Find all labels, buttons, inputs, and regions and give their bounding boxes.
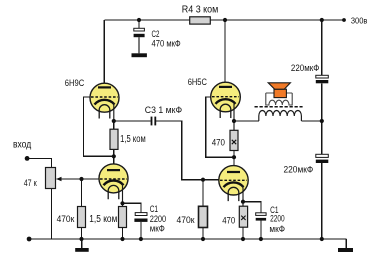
svg-text:1,5 ком: 1,5 ком [89, 214, 117, 225]
svg-text:470к: 470к [57, 214, 75, 224]
wire transformer to right column [301, 120, 321, 122]
svg-text:6Н9С: 6Н9С [65, 78, 85, 88]
svg-text:R4 3 ком: R4 3 ком [182, 4, 219, 15]
resistor 470 cathode right [239, 206, 247, 227]
node rail C1 right [259, 237, 263, 241]
tube V2b 6N5S lower half [219, 166, 248, 207]
node wiper grid [79, 177, 83, 181]
svg-text:мкФ: мкФ [150, 224, 165, 234]
capacitor 220uF top right [316, 75, 329, 83]
tube V1a 6N9S upper half [90, 83, 119, 121]
svg-text:мкФ: мкФ [269, 224, 285, 234]
svg-text:470 мкФ: 470 мкФ [152, 38, 181, 48]
capacitor C1 right [256, 213, 266, 221]
capacitor C3 [151, 117, 157, 126]
wire top B+ rail [104, 19, 344, 21]
resistor 470k left [78, 207, 86, 228]
svg-text:300в: 300в [351, 16, 368, 25]
svg-text:470: 470 [212, 137, 225, 148]
node input terminal [25, 156, 30, 161]
capacitor 220uF bottom right [316, 154, 329, 163]
node rail 470k right [201, 237, 205, 241]
transformer primary winding [259, 110, 302, 121]
node V2b grid [201, 178, 205, 182]
svg-text:220мкФ: 220мкФ [291, 63, 320, 73]
resistor 470 SRPP right [230, 130, 238, 150]
wire tap bus to transformer [234, 120, 259, 122]
svg-text:C1: C1 [150, 204, 158, 214]
wire C2 drop [138, 20, 140, 29]
wire tube V1a plate lead [103, 20, 105, 85]
wire V2b plate lead [233, 157, 235, 166]
svg-text:2200: 2200 [270, 214, 285, 224]
node junction dots [25, 18, 346, 242]
wire right column bottom [321, 163, 323, 239]
node rail C1 left [139, 237, 143, 241]
ground below C2 [132, 53, 147, 57]
wire right column top [321, 20, 323, 76]
node SRPP mid right [232, 155, 236, 159]
node right column top [320, 18, 324, 22]
node rail 470 right [241, 237, 245, 241]
node transformer right [320, 119, 324, 123]
wire node to R 470k left [81, 179, 83, 207]
node V1b cathode [120, 201, 124, 205]
svg-text:1,5 ком: 1,5 ком [120, 134, 146, 145]
transformer secondary winding [266, 93, 292, 105]
svg-text:220мкФ: 220мкФ [284, 164, 314, 174]
svg-text:6Н5С: 6Н5С [188, 77, 208, 87]
wire wiper to grid node [57, 178, 82, 180]
wire R1.5k upper leads [113, 121, 115, 164]
svg-text:C3 1 мкФ: C3 1 мкФ [145, 105, 182, 115]
ground left under rail [75, 248, 89, 252]
wire R1.5k lower bottom [122, 228, 124, 240]
svg-text:вход: вход [13, 139, 31, 151]
resistor 470k right [199, 206, 208, 227]
wire R470 lower bottom [242, 227, 244, 239]
wire right column middle [321, 83, 323, 154]
node 300V terminal [342, 18, 346, 22]
resistor R4 3k [190, 17, 211, 24]
transformer core [255, 106, 303, 108]
wire V1b cathode node branch [123, 203, 141, 212]
svg-text:470: 470 [222, 216, 235, 227]
wire right-end ground stub [345, 239, 347, 248]
wire input to potentiometer [27, 158, 51, 167]
wire node A bus to C3 [114, 120, 151, 122]
wire R 470k right leads [202, 180, 204, 239]
node C2 top [137, 18, 141, 22]
wire tube V2a plate lead [224, 20, 226, 84]
capacitor C1 left [134, 213, 147, 222]
speaker [268, 83, 290, 98]
node A V1 cathode tap [112, 119, 116, 123]
node rail left end [27, 237, 32, 242]
wire V1a grid to SRPP node [84, 97, 114, 156]
wire potentiometer bottom [51, 189, 53, 240]
wire C1 right bottom [260, 221, 262, 239]
wire V2a grid to SRPP node [206, 97, 234, 157]
tube V2a 6N5S upper half [211, 82, 241, 130]
node V2a plate top [223, 18, 227, 22]
capacitor C2 [134, 28, 145, 53]
wire C3 to V2b grid [156, 121, 203, 180]
svg-text:2200: 2200 [150, 214, 167, 224]
node rail 470k left [79, 237, 83, 241]
node V2b cathode [241, 200, 245, 204]
wire C1 left bottom [140, 222, 142, 239]
node rail 1.5k [120, 237, 124, 241]
wire V2b cathode branch to C1 right [243, 202, 261, 213]
node rail right column [320, 237, 324, 241]
potentiometer 47k [46, 168, 62, 189]
resistor 1.5k cathode left [119, 207, 127, 228]
wire R 470k left bottom [81, 228, 83, 240]
wire left ground stub [81, 239, 83, 248]
resistor 1.5k SRPP left [110, 129, 118, 149]
ground bottom right [338, 248, 353, 252]
wire R470 upper bottom [233, 151, 235, 158]
wire V1b grid lead [82, 178, 100, 180]
svg-text:470к: 470к [177, 215, 195, 225]
wire V2b grid lead [203, 179, 219, 181]
node V2 cathode tap [232, 119, 236, 123]
tube V1b 6N9S lower half [99, 164, 128, 207]
node SRPP mid left [112, 154, 116, 158]
svg-text:47 к: 47 к [24, 178, 37, 188]
wire bottom ground rail [29, 238, 346, 240]
